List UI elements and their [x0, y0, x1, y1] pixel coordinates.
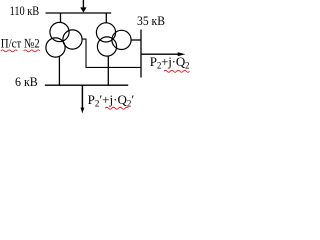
wire load arrow P2+jQ2 to the right — [141, 52, 185, 56]
squiggle under П/ст — [1, 50, 18, 52]
wire T2 LV down to 6 kV bus — [107, 56, 109, 85]
squiggle under j·Q2 — [164, 70, 190, 72]
node 110 kV busbar — [46, 12, 112, 14]
transformer T1 top stub wire — [60, 13, 62, 23]
transformer T1 MV winding circle — [63, 30, 82, 49]
transformer T1 (three-winding): HV winding circle — [50, 22, 69, 41]
transformer T2 (three-winding): HV winding circle — [96, 23, 115, 42]
svg-text:П/ст №2: П/ст №2 — [1, 35, 40, 50]
transformer T2 LV winding circle — [97, 37, 116, 56]
wire T1 MV to 35 kV bus — [82, 39, 141, 67]
svg-text:35 кВ: 35 кВ — [137, 13, 165, 28]
squiggle under №2 — [24, 50, 40, 52]
squiggle under j·Q2' — [105, 107, 128, 109]
transformer T2 top stub wire — [105, 13, 107, 23]
wire incoming feeder with down arrow onto 110 kV bus — [80, 0, 86, 13]
node 6 kV busbar — [45, 84, 128, 86]
transformer T2 MV winding circle — [112, 30, 131, 49]
svg-text:110 кВ: 110 кВ — [10, 3, 40, 18]
wire T1 LV down to 6 kV bus — [58, 56, 60, 85]
svg-text:6 кВ: 6 кВ — [15, 74, 38, 89]
transformer T1 LV winding circle — [46, 38, 65, 57]
wire load arrow P2'+jQ2' downward — [81, 85, 85, 113]
node 35 kV busbar — [140, 30, 142, 78]
svg-text:P2+j·Q2: P2+j·Q2 — [150, 54, 190, 71]
wire T2 MV to 35 kV bus — [131, 39, 141, 41]
